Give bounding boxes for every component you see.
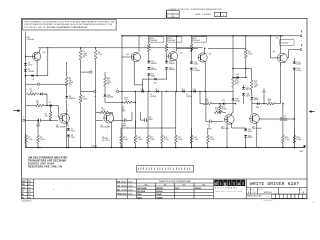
resistor R29 xyxy=(250,80,253,89)
svg-text:D662M: D662M xyxy=(151,63,157,65)
diode D29 xyxy=(257,102,259,105)
svg-text:D662M: D662M xyxy=(194,70,200,72)
svg-text:MFD: MFD xyxy=(123,125,128,127)
svg-text:SCH: SCH xyxy=(22,187,25,189)
junction xyxy=(219,103,220,104)
junction xyxy=(135,102,136,103)
transistor Q4 xyxy=(168,52,177,61)
svg-text:D662M: D662M xyxy=(169,69,175,71)
svg-text:DEC3009B: DEC3009B xyxy=(137,188,147,190)
svg-text:7,500: 7,500 xyxy=(98,54,103,56)
wire xyxy=(191,36,193,44)
svg-text:TRANSISTORS ARE DEC3009B: TRANSISTORS ARE DEC3009B xyxy=(28,160,66,163)
svg-text:D664: D664 xyxy=(297,64,301,66)
svg-text:MM3009: MM3009 xyxy=(156,188,163,190)
pin E xyxy=(94,90,96,92)
wire xyxy=(80,60,82,91)
svg-text:D672: D672 xyxy=(246,95,250,97)
junction xyxy=(191,35,192,36)
junction xyxy=(282,103,283,104)
svg-text:D26: D26 xyxy=(236,74,239,76)
wire Q6 base xyxy=(270,57,277,59)
junction xyxy=(46,105,47,106)
diode D26 xyxy=(237,76,239,79)
svg-text:DRN: DRN xyxy=(117,181,120,183)
wire Q5 emitter xyxy=(204,62,206,92)
junction xyxy=(232,77,233,78)
wire xyxy=(111,112,113,115)
resistor R26 xyxy=(204,102,212,105)
wire xyxy=(161,91,163,128)
wire Q2 collector xyxy=(66,109,68,112)
svg-text:WL: WL xyxy=(22,197,24,199)
junction xyxy=(175,147,176,148)
svg-text:D672: D672 xyxy=(175,188,179,190)
wire xyxy=(225,103,236,105)
logo digital xyxy=(214,180,218,186)
wire xyxy=(134,84,142,86)
wire xyxy=(251,100,253,112)
junction xyxy=(135,147,136,148)
wire xyxy=(166,36,168,44)
transistor Q2 xyxy=(60,113,70,123)
svg-text:D16: D16 xyxy=(154,82,157,84)
svg-text:J: J xyxy=(117,88,118,90)
wire xyxy=(148,36,150,44)
diode D30 xyxy=(293,68,296,70)
svg-text:1,000: 1,000 xyxy=(28,139,33,141)
svg-text:70.1 47%: 70.1 47% xyxy=(102,140,110,142)
junction xyxy=(207,147,208,148)
wire right col xyxy=(293,71,295,148)
wire xyxy=(147,128,149,135)
junction xyxy=(121,147,122,148)
wire xyxy=(80,103,82,148)
resistor R5 xyxy=(49,112,52,120)
wire xyxy=(44,105,50,107)
svg-text:1,500: 1,500 xyxy=(178,139,183,141)
svg-text:1,500: 1,500 xyxy=(210,139,215,141)
wire xyxy=(50,119,52,122)
diode D29 xyxy=(293,62,296,64)
wire xyxy=(26,105,36,107)
junction xyxy=(226,147,227,148)
wire xyxy=(232,127,246,129)
svg-text:5%: 5% xyxy=(107,84,110,86)
wire xyxy=(243,96,245,104)
wire xyxy=(50,106,52,112)
wire xyxy=(219,113,221,115)
svg-text:D23: D23 xyxy=(222,100,225,102)
junction xyxy=(207,147,208,148)
svg-text:D15: D15 xyxy=(141,89,144,91)
svg-text:7,500: 7,500 xyxy=(137,139,142,141)
wire xyxy=(120,128,122,135)
svg-text:D672: D672 xyxy=(248,137,252,139)
wire xyxy=(232,112,233,114)
svg-text:D648: D648 xyxy=(235,101,239,103)
wire xyxy=(52,105,59,107)
resistor R25 xyxy=(244,50,247,58)
wire xyxy=(42,93,47,95)
wire xyxy=(119,90,122,92)
junction xyxy=(135,91,136,92)
svg-text:D648: D648 xyxy=(254,99,258,101)
diode D27 xyxy=(242,87,245,89)
junction xyxy=(191,147,192,148)
svg-text:g: g xyxy=(224,181,227,186)
wire Q5 base xyxy=(177,47,199,49)
junction xyxy=(36,75,37,76)
diode D28 xyxy=(242,93,245,95)
junction xyxy=(66,147,67,148)
junction xyxy=(258,147,259,148)
junction xyxy=(147,147,148,148)
svg-text:D672: D672 xyxy=(246,89,250,91)
arrow left border xyxy=(13,110,18,112)
wire xyxy=(80,91,82,95)
wire xyxy=(147,143,149,147)
wire xyxy=(95,48,97,50)
svg-text:PL: PL xyxy=(22,191,24,193)
wire xyxy=(132,101,135,103)
svg-text:ML: ML xyxy=(22,194,24,196)
wire Q4 emitter xyxy=(175,60,177,91)
junction xyxy=(121,102,122,103)
junction xyxy=(50,120,51,121)
junction xyxy=(282,147,283,148)
wire right mid xyxy=(251,103,253,105)
wire xyxy=(80,48,82,50)
wire xyxy=(131,112,133,120)
junction xyxy=(245,147,246,148)
svg-text:DEC6534: DEC6534 xyxy=(221,128,229,130)
junction xyxy=(176,91,177,92)
junction xyxy=(176,35,177,36)
junction xyxy=(282,147,283,148)
junction xyxy=(25,56,26,57)
svg-text:1,500: 1,500 xyxy=(123,139,128,141)
resistor R18 xyxy=(215,111,223,114)
junction xyxy=(25,75,26,76)
svg-text:5 GBL04: 5 GBL04 xyxy=(91,145,97,147)
wire xyxy=(279,63,281,104)
wire xyxy=(251,89,253,96)
junction xyxy=(166,91,167,92)
svg-text:EQUIPMENT: EQUIPMENT xyxy=(215,188,239,190)
junction xyxy=(147,147,148,148)
wire xyxy=(126,119,132,121)
transistor Q5 xyxy=(198,53,207,62)
diode D2 xyxy=(24,69,27,71)
wire xyxy=(204,48,206,53)
resistor R8 xyxy=(94,50,97,60)
wire xyxy=(190,128,192,135)
svg-text:100,000: 100,000 xyxy=(169,40,176,42)
svg-text:6287: 6287 xyxy=(28,194,31,196)
label R12 xyxy=(193,37,207,42)
svg-text:UNLESS OTHERWISE INDICATED:: UNLESS OTHERWISE INDICATED: xyxy=(28,157,68,160)
wire xyxy=(120,143,122,147)
junction xyxy=(37,147,38,148)
wire xyxy=(259,118,280,120)
resistor R23 xyxy=(190,135,193,143)
resistor R35 xyxy=(267,102,275,105)
wire xyxy=(245,58,247,77)
svg-text:1N3653: 1N3653 xyxy=(195,188,201,190)
svg-text:5%: 5% xyxy=(69,84,72,86)
wire xyxy=(190,71,192,148)
svg-text:D662M: D662M xyxy=(151,69,157,71)
wire xyxy=(104,97,106,102)
svg-text:1: 1 xyxy=(313,202,314,204)
svg-text:D662M: D662M xyxy=(169,63,175,65)
svg-text:10-9-67: 10-9-67 xyxy=(128,185,133,187)
wire xyxy=(175,128,177,135)
svg-text:i: i xyxy=(229,181,230,186)
wire xyxy=(67,138,69,148)
wire Q1 base xyxy=(26,55,33,57)
wire xyxy=(175,91,177,128)
capacitor C2 xyxy=(38,119,40,123)
wire mid2 xyxy=(26,83,38,85)
resistor R10 xyxy=(147,44,150,52)
diode D20 xyxy=(190,68,193,70)
wire xyxy=(161,143,163,147)
wire xyxy=(108,111,112,113)
junction xyxy=(148,35,149,36)
wire xyxy=(231,113,233,115)
wire xyxy=(251,112,253,114)
resistor R4 xyxy=(35,104,43,107)
svg-text:D5: D5 xyxy=(49,102,51,104)
svg-text:MFD: MFD xyxy=(37,126,42,128)
wire bus2 ext xyxy=(208,47,246,49)
wire xyxy=(259,103,267,105)
diode D12 xyxy=(147,73,150,75)
wire Q3 collector xyxy=(138,36,140,52)
junction xyxy=(245,77,246,78)
junction xyxy=(121,91,122,92)
resistor R11 xyxy=(165,44,168,52)
svg-text:d: d xyxy=(215,181,218,186)
svg-text:CODE: CODE xyxy=(251,188,254,190)
wire Q2 emitter xyxy=(67,122,69,126)
title block xyxy=(246,179,248,199)
wire mid1 xyxy=(26,75,48,77)
wire xyxy=(222,120,224,122)
wire xyxy=(207,143,209,147)
border frame xyxy=(22,18,308,199)
svg-text:750: 750 xyxy=(268,101,271,103)
wire xyxy=(287,57,288,59)
diode D32 xyxy=(244,135,247,137)
wire xyxy=(25,143,27,147)
wire Q4 collector xyxy=(176,36,178,51)
wire xyxy=(157,78,167,80)
wire Q6 emitter xyxy=(279,63,281,66)
transistor Q6 xyxy=(278,53,288,63)
diode D5 xyxy=(50,104,52,107)
junction xyxy=(294,147,295,148)
pin D input xyxy=(23,119,25,121)
junction xyxy=(199,91,200,92)
sheet index table xyxy=(33,179,35,199)
wire xyxy=(246,68,252,70)
svg-text:DIODES ARE D664: DIODES ARE D664 xyxy=(28,162,55,165)
wire xyxy=(147,91,149,128)
wire column B xyxy=(232,36,234,77)
diode D8 xyxy=(67,135,70,137)
svg-text:5%: 5% xyxy=(254,87,257,89)
transistor Q7 xyxy=(104,113,114,123)
wire xyxy=(275,103,280,105)
wire xyxy=(190,143,192,147)
junction xyxy=(111,147,112,148)
svg-text:D662: D662 xyxy=(151,76,155,78)
wire xyxy=(288,50,290,58)
svg-text:D29: D29 xyxy=(256,107,259,109)
svg-text:DEC3009B: DEC3009B xyxy=(56,127,66,129)
svg-text:D662: D662 xyxy=(194,64,198,66)
svg-text:DRIVE: DRIVE xyxy=(187,96,193,98)
wire xyxy=(142,79,144,91)
wire xyxy=(140,112,142,120)
wire to Q7 base xyxy=(96,119,103,121)
wire bus2 xyxy=(38,47,202,49)
pin F xyxy=(37,83,39,85)
diode D17 xyxy=(156,90,158,93)
wire xyxy=(146,119,148,121)
svg-text:COPYRIGHT 1967 BY: COPYRIGHT 1967 BY xyxy=(24,27,47,29)
wire left rail xyxy=(25,32,27,148)
svg-text:DEC6534: DEC6534 xyxy=(137,190,145,193)
wire xyxy=(104,72,106,77)
svg-text:8287: 8287 xyxy=(28,181,31,183)
svg-text:6287: 6287 xyxy=(28,191,31,193)
transistor Q9 xyxy=(250,114,260,124)
wire xyxy=(96,111,100,113)
wire to pin T xyxy=(81,71,90,73)
wire column A xyxy=(121,36,123,148)
wire xyxy=(134,120,136,128)
svg-text:DRL: DRL xyxy=(22,184,25,186)
svg-text:100: 100 xyxy=(205,101,208,103)
wire xyxy=(269,36,271,58)
wire xyxy=(211,120,222,122)
svg-text:D17: D17 xyxy=(155,89,158,91)
wire xyxy=(293,128,295,135)
wire bottom bus -15V xyxy=(26,147,306,149)
wire bank tie xyxy=(121,127,176,129)
resistor R28 xyxy=(232,77,235,87)
svg-text:6287: 6287 xyxy=(28,187,31,189)
wire xyxy=(293,143,295,147)
diode D1 xyxy=(24,63,27,65)
svg-text:CIRCUITS ARE PROPRIETARY IN NA: CIRCUITS ARE PROPRIETARY IN NATURE AND S… xyxy=(24,23,113,26)
wire xyxy=(46,94,48,106)
diode D31 xyxy=(244,129,247,131)
junction xyxy=(191,147,192,148)
diode D4 xyxy=(40,93,42,96)
junction xyxy=(121,147,122,148)
diode D21 xyxy=(182,90,184,93)
wire xyxy=(282,143,284,147)
svg-text:i: i xyxy=(220,181,221,186)
wire Q1 collector xyxy=(39,48,42,53)
wire xyxy=(66,62,68,77)
diode D6 xyxy=(65,96,68,98)
wire xyxy=(37,93,41,95)
junction xyxy=(205,91,206,92)
wire xyxy=(40,83,67,85)
capacitor C6 xyxy=(209,120,211,124)
junction xyxy=(161,147,162,148)
wire xyxy=(282,104,284,128)
svg-text:1%: 1% xyxy=(83,57,86,59)
pin J xyxy=(116,90,118,92)
junction xyxy=(95,47,96,48)
svg-text:2: 2 xyxy=(223,15,224,17)
resistor R6 xyxy=(29,93,37,96)
svg-text:MFD: MFD xyxy=(284,120,289,122)
svg-text:ENG: ENG xyxy=(117,189,120,191)
drafting table xyxy=(116,179,118,199)
junction xyxy=(245,68,246,69)
svg-text:SIZE: SIZE xyxy=(247,188,250,190)
wire xyxy=(233,76,237,78)
wire xyxy=(199,91,201,103)
junction xyxy=(120,147,121,148)
svg-text:F: F xyxy=(38,88,39,90)
resistor R9 xyxy=(65,77,68,86)
svg-text:-15V: -15V xyxy=(299,151,304,153)
svg-text:6287-0-1: 6287-0-1 xyxy=(264,192,273,194)
svg-text:2: 2 xyxy=(172,12,173,14)
diode D10 xyxy=(147,61,150,63)
junction xyxy=(235,103,236,104)
capacitor C4 xyxy=(123,119,125,123)
junction xyxy=(26,147,27,148)
wire xyxy=(243,85,245,87)
svg-text:D662M: D662M xyxy=(28,71,34,73)
svg-text:D662: D662 xyxy=(137,194,141,196)
wire xyxy=(232,101,234,113)
junction xyxy=(138,35,139,36)
wire to pin E xyxy=(81,90,94,92)
svg-text:100,000: 100,000 xyxy=(151,40,158,42)
wire xyxy=(66,100,68,148)
svg-text:4,700: 4,700 xyxy=(83,98,88,100)
diode D22 xyxy=(194,90,196,93)
svg-text:D.SOGGE: D.SOGGE xyxy=(121,189,127,191)
svg-text:PRINTED CIRCUIT REV.: PRINTED CIRCUIT REV. xyxy=(247,195,262,197)
svg-text:THIS SCHEMATIC IS FURNISHED ON: THIS SCHEMATIC IS FURNISHED ONLY FOR TES… xyxy=(24,20,115,23)
diode D25 xyxy=(250,97,253,99)
diode D24 xyxy=(232,98,235,100)
revision table xyxy=(166,10,168,18)
diode D13 xyxy=(165,61,168,63)
wire xyxy=(25,134,27,136)
wire xyxy=(223,111,226,113)
wire xyxy=(104,86,106,94)
svg-text:2-4: 2-4 xyxy=(32,79,35,81)
junction xyxy=(294,147,295,148)
svg-text:D21: D21 xyxy=(181,89,184,91)
wire xyxy=(245,138,247,148)
svg-text:D662M: D662M xyxy=(107,97,113,99)
junction xyxy=(121,35,122,36)
